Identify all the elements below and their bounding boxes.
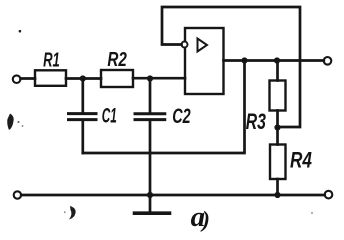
svg-text:R3: R3: [246, 109, 266, 134]
node B junction R2/C2/op-amp: [147, 75, 153, 81]
capacitor C2 plates: [135, 112, 165, 115]
bottom right terminal: [325, 191, 333, 199]
resistor R2: [101, 70, 133, 87]
node output junction to C1 feedback: [241, 57, 247, 63]
resistor R3: [270, 81, 286, 111]
ink comma bottom left: [69, 206, 76, 220]
capacitor C1 plates: [69, 112, 97, 115]
ink speckles left edge: [18, 121, 20, 123]
wire R3 bottom to R4 top: [276, 111, 279, 145]
resistor R1: [35, 70, 66, 86]
svg-text:R1: R1: [43, 49, 60, 71]
wire R4 bottom to ground rail: [276, 179, 279, 195]
bottom left terminal: [14, 191, 21, 198]
ink blob left edge: [7, 114, 13, 131]
node C2/ground rail junction: [147, 192, 153, 198]
op-amp triangle symbol: [198, 39, 208, 52]
svg-text:R4: R4: [290, 149, 312, 174]
svg-text:C1: C1: [102, 104, 117, 127]
input terminal: [13, 75, 21, 83]
wire feedback loop to inverting input: [162, 7, 300, 127]
capacitor C2 top lead: [149, 79, 152, 113]
ink speck bottom right: [311, 212, 313, 214]
svg-text:): ): [200, 207, 210, 232]
op-amp inverting input circle: [182, 42, 188, 48]
op-amp U1 body: [185, 28, 224, 94]
node R4/ground rail junction: [274, 192, 280, 198]
svg-text:R2: R2: [107, 48, 127, 71]
node R3/R4 divider junction: [274, 124, 280, 130]
wire R2 to op-amp input: [133, 77, 185, 80]
wire output node down to C1 bottom: [83, 61, 245, 154]
capacitor C1 top lead: [81, 79, 84, 113]
ground symbol: [149, 195, 152, 212]
ink speck near comma: [64, 211, 66, 213]
capacitor C1 bottom lead: [81, 120, 84, 153]
node A junction R1/R2/C1: [80, 75, 86, 81]
resistor R4: [270, 145, 286, 180]
wire input to R1: [21, 77, 35, 80]
ink speck top left: [19, 30, 22, 33]
wire output node to R3 top: [276, 61, 279, 81]
wire R1 to R2: [66, 77, 101, 80]
wire op-amp output: [224, 59, 324, 62]
svg-text:C2: C2: [172, 104, 190, 127]
node output junction to R3: [274, 57, 280, 63]
bottom rail wire: [21, 194, 325, 197]
output terminal: [324, 57, 332, 65]
capacitor C2 bottom lead to ground rail: [149, 120, 152, 195]
